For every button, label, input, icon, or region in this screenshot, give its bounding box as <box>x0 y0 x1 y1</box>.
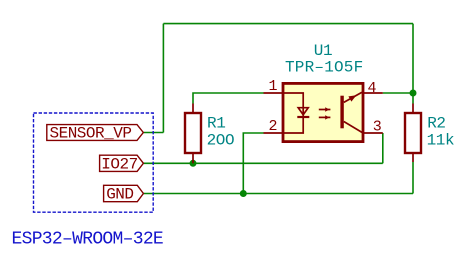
hierarchical label IO27 <box>100 155 144 173</box>
hierarchical label SENSOR_VP <box>47 125 144 143</box>
svg-text:4: 4 <box>368 80 377 97</box>
svg-text:U1: U1 <box>314 42 332 60</box>
hierarchical label GND <box>104 185 144 203</box>
svg-text:GND: GND <box>106 185 133 203</box>
svg-text:R1: R1 <box>207 114 225 132</box>
U1 pin 2 <box>264 132 284 134</box>
svg-text:TPR–1O5F: TPR–1O5F <box>285 59 363 77</box>
U1 pin 1 <box>264 92 284 94</box>
svg-text:11k: 11k <box>427 131 455 149</box>
light arrow upper <box>319 107 331 111</box>
U1 pin 3 <box>363 132 383 134</box>
svg-text:IO27: IO27 <box>101 155 137 173</box>
wire net SENSOR_VP: right vertical down to R2 <box>412 24 414 104</box>
svg-text:ESP32–WROOM–32E: ESP32–WROOM–32E <box>12 230 164 250</box>
wire net SENSOR_VP: flag stub to left riser <box>143 132 163 134</box>
wire U1 pin4 to junction <box>383 92 413 94</box>
optocoupler U1 body <box>283 83 363 141</box>
wire U1 pin2 to GND net <box>243 133 263 194</box>
junction at R1 bottom / IO27 <box>190 160 197 167</box>
wire R1 top to U1 pin1 <box>193 93 264 104</box>
svg-text:1: 1 <box>268 78 277 95</box>
transistor Q of U1 <box>342 93 363 133</box>
svg-text:2: 2 <box>268 118 277 135</box>
svg-text:R2: R2 <box>427 114 445 132</box>
junction at pin2 drop / GND <box>240 190 247 197</box>
wire R2 bottom to GND net <box>412 162 414 194</box>
wire net SENSOR_VP: left vertical riser <box>162 24 164 133</box>
wire net SENSOR_VP: top horizontal run <box>163 23 413 25</box>
light arrow lower <box>319 115 331 119</box>
wire net IO27 horizontal <box>143 162 382 164</box>
wire U1 pin3 riser <box>382 133 384 163</box>
resistor R1 <box>185 104 201 164</box>
sheet box ESP32 module <box>34 113 154 212</box>
LED inside U1 <box>283 93 309 133</box>
U1 pin 4 <box>363 92 383 94</box>
wire net GND horizontal <box>143 193 413 195</box>
junction at U1 pin4 / R2 top <box>410 90 417 97</box>
svg-text:3: 3 <box>373 119 382 136</box>
resistor R2 <box>405 104 421 163</box>
svg-text:SENSOR_VP: SENSOR_VP <box>50 125 132 143</box>
svg-text:2OO: 2OO <box>207 131 235 149</box>
